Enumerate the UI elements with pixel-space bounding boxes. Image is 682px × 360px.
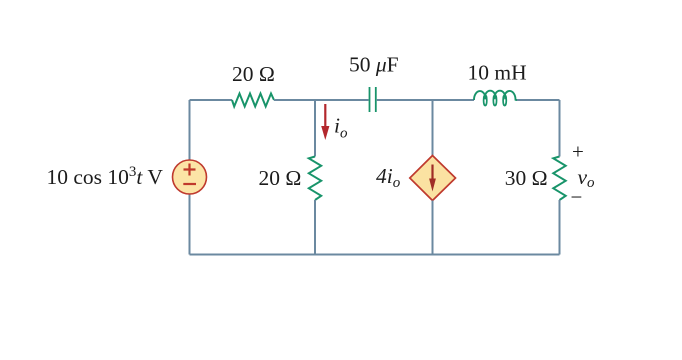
svg-text:io: io — [334, 114, 348, 142]
resistor R2 20Ω (middle vertical) — [309, 157, 321, 201]
resistor R3 30Ω (right vertical) — [553, 157, 565, 201]
inductor L1 10mH — [474, 91, 517, 106]
wire: top segment from R1 to capacitor — [274, 99, 369, 101]
wire: right vertical upper segment — [559, 100, 561, 157]
svg-text:20 Ω: 20 Ω — [232, 62, 275, 86]
wire: middle vertical 2 lower — [432, 201, 434, 255]
label: + polarity of vo — [572, 140, 584, 164]
resistor R1 20Ω (top horizontal) — [232, 94, 274, 107]
label: 4io — [376, 164, 401, 191]
capacitor C1 50µF plates — [370, 87, 376, 112]
label: io — [334, 114, 348, 142]
label: 10 cos 10^3 t V — [47, 164, 164, 189]
wire: middle vertical 1 lower — [314, 200, 316, 255]
svg-text:50 μF: 50 μF — [349, 53, 399, 77]
label: 20 Ω (top resistor) — [232, 62, 275, 86]
voltage source VS (10 cos 10^3 t V) — [173, 160, 207, 194]
current arrow io (red, pointing down) — [321, 104, 329, 140]
wire: top segment from left corner to resistor R1 — [190, 99, 233, 101]
wire: bottom horizontal — [190, 254, 560, 256]
label: 30 Ω — [505, 166, 548, 190]
wire: middle vertical 1 upper (node at 315) — [314, 100, 316, 157]
label: − polarity of vo — [571, 185, 583, 209]
label: vo — [578, 165, 596, 191]
wire: top segment from inductor to right corner — [517, 99, 560, 101]
svg-text:+: + — [572, 140, 584, 164]
wire: middle vertical 2 upper (node at 432.5) — [432, 100, 434, 156]
label: 10 mH — [468, 61, 527, 85]
svg-text:10 mH: 10 mH — [468, 61, 527, 85]
svg-text:−: − — [571, 185, 583, 209]
wire: right vertical lower segment — [559, 200, 561, 255]
svg-text:10 cos 103t V: 10 cos 103t V — [47, 164, 164, 189]
svg-text:4io: 4io — [376, 164, 401, 191]
wire: left vertical upper segment — [189, 100, 191, 160]
svg-text:30 Ω: 30 Ω — [505, 166, 548, 190]
wire: top segment from capacitor to inductor — [377, 99, 474, 101]
wire: left vertical lower segment — [189, 194, 191, 255]
svg-text:20 Ω: 20 Ω — [259, 166, 302, 190]
dependent current source 4io (diamond) — [410, 156, 456, 201]
label: 50 µF — [349, 53, 399, 77]
label: 20 Ω (middle resistor) — [259, 166, 302, 190]
